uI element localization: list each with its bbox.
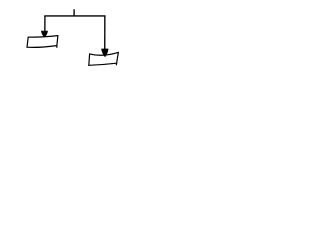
- box: left tilted sketchy rectangle node: [27, 36, 58, 48]
- wire: incoming stub from top: [73, 9, 75, 16]
- wire: left vertical drop: [44, 16, 46, 32]
- box: right tilted sketchy rectangle node: [89, 52, 119, 65]
- wire: right vertical drop: [104, 16, 106, 49]
- arrowhead into right box: [101, 49, 108, 58]
- arrowhead into left box: [41, 31, 48, 38]
- wire: horizontal connector bus: [44, 15, 105, 17]
